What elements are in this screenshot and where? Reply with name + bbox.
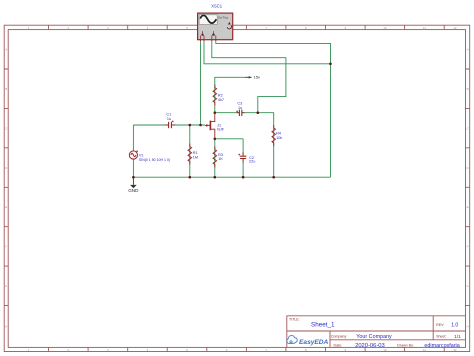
junction output node at scope probe B [257,111,260,114]
junction ground rail at V1 [132,176,135,179]
oscilloscope XSC1 [198,13,233,41]
top ruler ticks [49,25,445,29]
svg-text:2020-06-03: 2020-06-03 [355,343,385,349]
svg-text:E: E [467,205,469,209]
capacitor C3 [236,110,244,116]
scope pin B [212,33,216,36]
junction drain node [214,111,217,114]
C2 label [249,156,255,164]
junction scope return bus [329,63,332,66]
svg-text:REV:: REV: [436,323,444,327]
wire: scope B+ probe to output [212,40,286,112]
svg-text:SIN(0 1 50 10H 1 0): SIN(0 1 50 10H 1 0) [139,158,170,162]
svg-text:R4: R4 [276,132,281,136]
svg-text:V1: V1 [139,154,144,158]
wire: V1 bottom vertical [132,159,134,177]
wire: R1 branch [189,125,191,177]
svg-text:15v: 15v [254,75,260,80]
right ruler ticks [466,69,470,306]
resistor R1 [188,144,192,165]
svg-text:B: B [5,87,7,91]
C3 label [237,102,242,110]
ground [128,177,139,193]
svg-text:Sheet_1: Sheet_1 [311,321,335,328]
junction input node at scope probe A [199,124,202,127]
transistor J1 (NJF) [205,113,215,139]
resistor R3 [213,147,217,168]
svg-text:B: B [467,87,469,91]
svg-text:XSC1: XSC1 [211,3,222,8]
R2 label [218,93,224,102]
scope body [198,13,233,40]
junction ground rail at C2 [242,176,245,179]
svg-text:11: 11 [423,26,426,30]
wire: drain node to C3 [215,112,239,114]
scope pin A [201,33,204,36]
svg-text:E: E [5,205,7,209]
junction ground rail at R4 [272,176,275,179]
svg-text:Company:: Company: [331,335,347,339]
V1 label [139,154,170,163]
C1 label [166,112,171,121]
wire: C3 to output node to R4 corner [242,113,274,178]
svg-text:TITLE:: TITLE: [289,317,300,321]
net flag 15v [246,75,260,80]
svg-text:1u: 1u [238,106,242,110]
wire: scope A+ probe [200,40,202,125]
scope screen waveform [200,15,216,23]
junction ground rail at R1 [189,176,192,179]
resistor R4 [272,125,276,146]
bottom ruler ticks [49,347,445,351]
wire: C2 bottom [242,159,244,178]
pin stubs [201,36,216,41]
capacitor C1 [165,120,175,128]
svg-text:NJF: NJF [217,128,225,132]
svg-text:Your Company: Your Company [356,334,392,340]
svg-text:Sa Trig: Sa Trig [218,16,228,20]
svg-text:edimarcosfaria: edimarcosfaria [424,343,459,349]
svg-text:H: H [467,325,469,329]
svg-text:F: F [5,245,7,249]
svg-text:12: 12 [453,26,457,30]
svg-text:GND: GND [128,188,139,193]
wire: V1 top vertical [132,125,134,151]
svg-text:A: A [5,48,7,52]
R3 label [218,153,223,161]
svg-text:22u: 22u [249,160,255,164]
svg-text:F: F [467,245,469,249]
wire: drain to R2 to +15v corner [215,77,248,112]
wires [133,40,330,177]
svg-text:1.0: 1.0 [451,322,458,328]
R1 label [193,151,198,159]
svg-text:EasyEDA: EasyEDA [299,339,329,346]
svg-text:1K: 1K [218,157,223,161]
wire: C2 top [242,139,244,156]
capacitor C2 [238,152,246,163]
R4 label [276,132,282,141]
wire: source node to C2 [215,138,243,140]
resistor R2 [213,85,217,106]
svg-text:10k: 10k [276,136,282,140]
EasyEDA logo [287,336,329,346]
junction source node [214,138,217,141]
svg-text:R2: R2 [218,93,223,97]
wire: bottom rail [133,176,330,178]
svg-text:1M: 1M [193,155,198,159]
svg-text:H: H [5,325,7,329]
voltage source V1 [129,150,138,159]
svg-text:1/1: 1/1 [454,334,461,339]
wire: input node horizontal (V1 top to gate), gap at C1 [133,124,168,126]
scope trigger pin [228,22,231,25]
junction input node at R1 top [189,124,192,127]
svg-text:C1: C1 [166,112,171,116]
svg-text:Date:: Date: [334,344,343,348]
title block [287,316,466,348]
wire: R3 branch [214,139,216,177]
wire: scope A- to right bus [204,40,331,64]
svg-text:Drawn By:: Drawn By: [397,344,414,348]
svg-text:4k7: 4k7 [218,98,224,102]
svg-text:Sheet:: Sheet: [436,335,446,339]
wire: scope B- down right side [216,40,331,177]
svg-text:A: A [467,48,469,52]
svg-text:10: 10 [383,26,387,30]
J1 label [217,124,225,132]
left ruler ticks [4,69,8,306]
junction ground rail at R3 [214,176,217,179]
svg-text:1u: 1u [167,117,171,121]
scope screen [199,15,217,25]
